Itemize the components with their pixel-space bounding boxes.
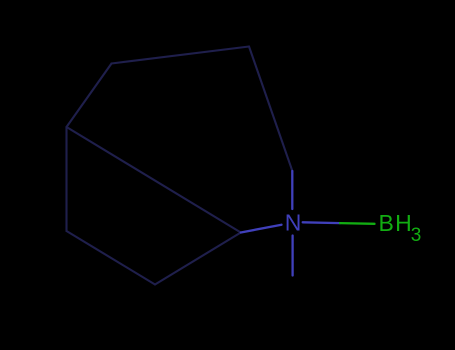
wire TL-L1 upper-left edge — [67, 64, 112, 128]
wire N left bond to V1 — [241, 225, 282, 233]
svg-text:N: N — [285, 210, 302, 236]
wire L2-BV bottom-left edge — [67, 231, 156, 285]
node N bonds (blue) — [241, 171, 340, 276]
wire V1-L1 internal diagonal — [67, 127, 241, 233]
wire BV-V1 bottom-right edge — [155, 233, 241, 285]
wire T-TL top edge — [112, 47, 250, 64]
wire A-T steep diagonal — [249, 47, 292, 171]
wire N-B bond green half — [340, 222, 375, 225]
svg-text:H: H — [395, 210, 412, 236]
svg-text:3: 3 — [411, 225, 422, 246]
svg-text:B: B — [379, 210, 394, 236]
wire N-B bond blue half — [303, 221, 340, 224]
wire L1-L2 left vertical edge — [65, 127, 67, 231]
wire N up bond to A — [291, 171, 293, 209]
wire: carbon skeleton cage (dark navy) — [67, 47, 293, 285]
wire N down methyl bond — [291, 236, 293, 276]
